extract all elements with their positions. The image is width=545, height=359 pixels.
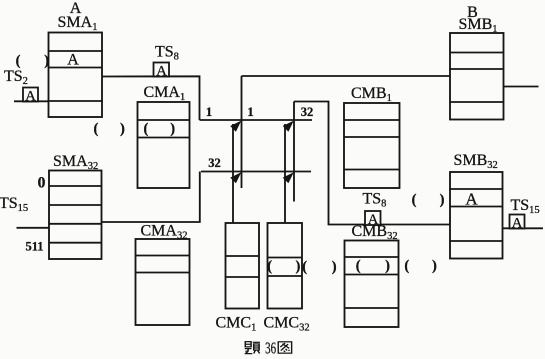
- svg-text:CMA32: CMA32: [141, 223, 188, 242]
- svg-text:(: (: [412, 192, 417, 208]
- svg-text:36: 36: [265, 340, 276, 358]
- svg-text:): ): [432, 258, 437, 274]
- memory SMB32: [450, 172, 503, 259]
- svg-text:TS2: TS2: [4, 68, 28, 87]
- svg-text:1: 1: [247, 105, 253, 119]
- wire row 32 horizontal: [201, 171, 311, 173]
- wire SMA1 output to row 1: [102, 76, 200, 120]
- svg-text:A: A: [25, 89, 36, 105]
- svg-text:): ): [332, 259, 337, 275]
- wire row 1 horizontal: [200, 119, 313, 121]
- svg-text:SMA32: SMA32: [53, 153, 98, 172]
- svg-text:A: A: [512, 216, 523, 232]
- svg-text:(: (: [16, 53, 21, 69]
- svg-text:A: A: [368, 212, 379, 228]
- svg-text:): ): [120, 121, 125, 137]
- control memory CMB32: [345, 241, 399, 328]
- svg-text:): ): [44, 53, 49, 69]
- wire column 32 vertical: [293, 102, 295, 202]
- crosspoint arrow row32-col1: [230, 172, 241, 183]
- svg-text:TS15: TS15: [0, 195, 28, 214]
- control memory CMB1: [344, 103, 400, 188]
- svg-text:TS8: TS8: [155, 44, 179, 63]
- svg-text:CMC32: CMC32: [264, 315, 310, 334]
- svg-text:CMB1: CMB1: [351, 85, 392, 104]
- svg-text:): ): [170, 121, 175, 137]
- wire SMA32 output to row 32: [102, 172, 200, 223]
- svg-text:32: 32: [208, 156, 221, 170]
- svg-text:SMB32: SMB32: [454, 152, 498, 171]
- wire TS15 input to SMA32: [17, 227, 50, 229]
- control memory CMA32: [136, 239, 190, 325]
- time-slot box A on TS2 input: [23, 88, 38, 102]
- svg-text:): ): [440, 192, 445, 208]
- svg-text:TS15: TS15: [511, 197, 540, 216]
- svg-text:1: 1: [206, 105, 212, 119]
- wire TS2 input to SMA1: [14, 100, 49, 102]
- wire column 1 vertical: [241, 76, 243, 188]
- wire control line CMC32 to crosspoints: [284, 124, 286, 224]
- svg-text:A: A: [465, 190, 478, 209]
- svg-text:A: A: [156, 64, 167, 80]
- time-slot box A on TS8 wire: [154, 63, 170, 77]
- time-slot box A on TS8 wire to SMB32: [365, 211, 381, 225]
- svg-text:0: 0: [38, 175, 46, 192]
- crosspoint arrow row32-col32: [283, 172, 294, 183]
- svg-text:(: (: [144, 121, 149, 137]
- svg-text:32: 32: [301, 105, 314, 119]
- wire column 32 output to SMB32: [294, 102, 450, 225]
- svg-text:(: (: [356, 258, 361, 274]
- wire SMB1 output: [504, 86, 539, 88]
- svg-text:SMA1: SMA1: [58, 14, 98, 33]
- crosspoint arrow row1-col1: [230, 121, 241, 132]
- svg-text:CMC1: CMC1: [216, 315, 257, 334]
- crosspoint arrow row1-col32: [283, 121, 294, 132]
- memory SMA32: [49, 171, 102, 260]
- svg-text:A: A: [67, 52, 79, 69]
- caption: character 题: [245, 342, 260, 354]
- svg-text:): ): [296, 259, 301, 275]
- caption: character 图: [278, 342, 291, 353]
- svg-text:(: (: [267, 259, 272, 275]
- svg-text:TS8: TS8: [363, 191, 387, 210]
- memory SMB1: [450, 33, 504, 120]
- svg-text:SMB1: SMB1: [459, 16, 498, 35]
- svg-text:(: (: [94, 121, 99, 137]
- wire SMB32 output to TS15: [503, 227, 544, 229]
- wire column 1 output to SMB1: [242, 75, 451, 77]
- svg-text:(: (: [302, 259, 307, 275]
- svg-text:(: (: [404, 258, 409, 274]
- control memory CMC32: [268, 223, 303, 309]
- wire control line CMC1 to crosspoints: [232, 124, 234, 224]
- control memory CMC1: [226, 223, 260, 309]
- time-slot box A on TS15 output: [510, 215, 525, 229]
- control memory CMA1: [138, 102, 190, 188]
- svg-text:CMA1: CMA1: [144, 84, 186, 103]
- svg-text:): ): [385, 258, 390, 274]
- memory SMA1: [49, 33, 103, 118]
- svg-text:511: 511: [25, 240, 43, 254]
